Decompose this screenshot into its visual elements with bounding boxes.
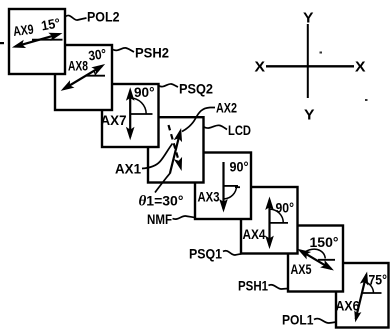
square PSH1 (S7) <box>288 226 343 292</box>
angle arc 90 (PSQ2) <box>130 98 146 114</box>
square LCD (S4) <box>148 117 204 182</box>
svg-text:POL1: POL1 <box>282 312 314 328</box>
svg-text:AX1: AX1 <box>115 162 141 177</box>
axis AX1 solid line <box>170 127 185 173</box>
svg-text:X: X <box>355 60 366 76</box>
square POL1 (S8) <box>336 263 389 328</box>
svg-text:30°: 30° <box>87 46 107 63</box>
angle arc 90 (PSQ1) <box>270 209 284 223</box>
arrow AX7 <box>126 87 135 140</box>
svg-text:PSQ1: PSQ1 <box>189 246 222 262</box>
angle ref line 90 (NMF) <box>224 185 239 187</box>
angle ref line 75 <box>362 292 382 294</box>
XY axis cross: horizontal line <box>266 65 354 67</box>
svg-text:150°: 150° <box>310 235 339 250</box>
arrow AX9 <box>11 29 64 52</box>
svg-text:Y: Y <box>304 108 315 124</box>
angle arc 30 <box>94 71 96 76</box>
square NMF (S5) <box>195 153 251 220</box>
svg-text:AX7: AX7 <box>101 113 127 128</box>
square POL2 (S1) <box>9 9 65 74</box>
square PSH2 (S2) <box>55 45 112 110</box>
svg-text:NMF: NMF <box>147 211 172 227</box>
scan stub left of S5 right edge <box>235 186 240 188</box>
scan speck near axis <box>320 52 323 54</box>
leader NMF <box>173 216 196 219</box>
svg-text:90°: 90° <box>134 85 155 100</box>
leader PSQ2 <box>159 84 179 87</box>
angle arc 75 <box>365 282 374 293</box>
angle ref line 15 <box>32 39 63 41</box>
svg-text:PSH2: PSH2 <box>135 45 169 61</box>
arrow AX3 <box>219 162 228 213</box>
leader AX2 <box>182 108 215 132</box>
svg-text:θ1=30°: θ1=30° <box>139 193 184 210</box>
arrow AX4 <box>265 197 274 250</box>
svg-text:90°: 90° <box>230 160 249 175</box>
svg-text:AX2: AX2 <box>216 101 237 116</box>
square PSQ2 (S3) <box>102 84 159 147</box>
arrow AX5 <box>295 245 336 274</box>
svg-text:POL2: POL2 <box>87 9 120 25</box>
arrow AX8 <box>58 60 107 94</box>
angle ref line 30 <box>86 75 105 77</box>
scan speck right <box>365 99 368 101</box>
svg-text:Y: Y <box>303 11 314 27</box>
svg-text:90°: 90° <box>276 201 295 216</box>
svg-text:PSH1: PSH1 <box>238 278 268 294</box>
angle ref line 150 <box>318 259 335 261</box>
arrow AX6 <box>352 271 372 324</box>
leader AX1 <box>142 144 173 169</box>
svg-text:AX3: AX3 <box>198 190 220 205</box>
svg-text:AX5: AX5 <box>291 262 312 277</box>
leader PSH2 <box>113 48 134 52</box>
leader PSQ1 <box>223 251 242 255</box>
leader POL2 <box>66 15 87 20</box>
angle arc 90 (NMF) <box>224 186 237 199</box>
axis AX2 dashed line <box>169 125 186 172</box>
XY axis cross: vertical line <box>307 24 309 98</box>
angle ref line 90 (PSQ1) <box>270 222 289 224</box>
svg-text:PSQ2: PSQ2 <box>179 81 213 97</box>
svg-text:AX9: AX9 <box>12 22 34 39</box>
leader theta1 <box>155 173 171 193</box>
svg-text:75°: 75° <box>369 273 388 288</box>
angle arc 150 <box>304 249 326 258</box>
svg-text:AX4: AX4 <box>243 227 266 242</box>
svg-text:AX6: AX6 <box>336 299 360 314</box>
angle ref line 90 (PSQ2) <box>130 113 152 115</box>
svg-text:AX8: AX8 <box>68 59 88 74</box>
scan dash at left edge <box>0 42 4 44</box>
leader POL1 <box>314 319 336 323</box>
svg-text:LCD: LCD <box>228 123 251 138</box>
svg-text:X: X <box>255 60 266 76</box>
leader PSH1 <box>269 285 289 289</box>
leader LCD <box>204 125 227 129</box>
square PSQ1 (S6) <box>241 187 298 254</box>
